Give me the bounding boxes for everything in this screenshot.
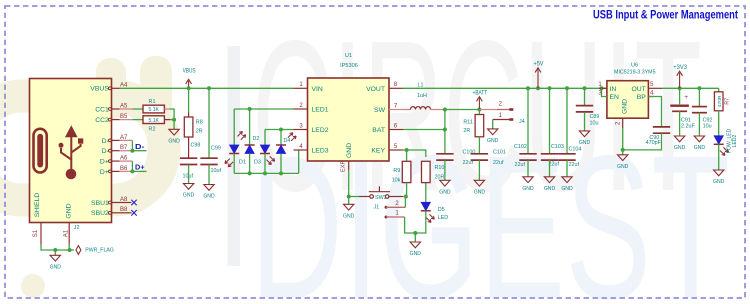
U6 pin 4 BP [648,96,654,98]
svg-text:GND: GND [487,138,499,144]
svg-text:5.1K: 5.1K [148,118,159,124]
power symbol +3V3 [679,73,681,89]
wire SBU2 stub [120,212,132,214]
wire C101 gnd [478,160,480,180]
svg-text:D3: D3 [254,160,261,166]
wire J1 pin1 to gnd rail [405,217,416,233]
led D2 [245,144,255,146]
junction shield/gnd [53,248,57,252]
svg-text:R7: R7 [724,98,730,105]
svg-text:22uf: 22uf [515,162,526,168]
USB pin S1 SHIELD stub [40,223,42,245]
wire R7 to LED2 [718,111,720,136]
wire LED2 gnd [718,145,720,171]
wire C98 to gnd [188,165,190,184]
svg-text:KEY: KEY [371,148,385,155]
wire J1 pin2 up [404,197,406,208]
ground C99 [204,185,214,191]
U6 pin 2 GND [622,118,624,128]
capacitor C104 22uf [558,153,575,155]
wire C102 [527,88,529,153]
svg-text:SBU1: SBU1 [91,200,109,207]
wire +3V3 rail [662,87,719,89]
svg-text:GND: GND [343,214,355,220]
svg-text:+3V3: +3V3 [673,65,687,71]
svg-text:L1: L1 [418,82,424,88]
U1 pin 4 LED3 [294,149,308,151]
wire C89 gnd [584,112,586,131]
junction LED2 rail [279,128,283,132]
junction VBUS at R8 [187,86,191,90]
svg-text:D5: D5 [438,207,445,213]
svg-text:VBUS: VBUS [183,68,196,74]
ground U6 [622,150,624,155]
power symbol +5V [537,69,539,88]
wire D2 top [249,109,251,145]
svg-text:GND: GND [346,143,353,158]
junction +5V [536,86,540,90]
wire R8 to C98 [188,137,190,158]
USB receptacle icon [34,129,47,173]
switch SW3 [389,196,404,198]
svg-text:CC1: CC1 [95,106,109,113]
svg-text:GND: GND [544,186,556,192]
svg-text:D+: D+ [100,159,109,166]
svg-text:10k: 10k [392,177,401,183]
resistor R11 2R [475,115,484,137]
led D5 [421,202,430,210]
wire C100 gnd [444,160,446,180]
junction KEY R9 [405,148,409,152]
capacitor C98 10uf [180,157,197,159]
wire C103 gnd [549,160,551,177]
resistor R8 2R [188,113,190,118]
wire batt rail [445,109,480,111]
wire VBUS rail [120,87,294,89]
svg-text:GND: GND [522,186,534,192]
svg-text:GND: GND [561,186,573,192]
svg-text:2R: 2R [463,128,470,134]
wire VBUS to R8 [188,88,190,112]
wire to R7 [718,88,720,92]
U6 pin 5 OUT [648,87,662,89]
ground sw3 [348,197,350,205]
junction EXP SW3 gnd [347,195,351,199]
U6 pin 1 IN [599,87,607,89]
ground C101 [474,180,484,186]
junction bottom rail D2 [248,171,252,175]
svg-text:2.2uF: 2.2uF [681,123,695,129]
wire U6 gnd [622,128,624,150]
capacitor C92 10u [692,106,707,108]
wire C91 gnd [679,111,681,136]
svg-text:LED3: LED3 [312,148,329,155]
ground C103 [544,177,554,183]
svg-text:D-: D- [102,148,109,155]
svg-text:D+: D+ [135,163,145,172]
svg-text:D4: D4 [284,138,291,144]
wire A1 gnd down [68,245,70,251]
wire SW to L1 [403,109,411,111]
resistor R7 470R [714,92,723,111]
capacitor C103 22uf [541,153,558,155]
svg-text:GND: GND [579,140,591,146]
svg-text:R9: R9 [393,168,400,174]
svg-text:GND: GND [674,145,686,151]
wire D1 top [233,109,235,145]
ic U1 IPS306 body [308,78,390,161]
svg-text:U6: U6 [631,62,638,68]
svg-text:GND: GND [168,139,180,145]
junction D+ [130,169,134,173]
resistor R2 5.1K [143,116,164,124]
junction gnd rail [413,231,417,235]
svg-text:470R: 470R [717,95,723,107]
svg-text:C102: C102 [514,144,527,150]
wire D- B7 [120,150,133,152]
wire J4 pin1 gnd [492,120,494,129]
svg-text:LED2: LED2 [312,127,329,134]
inductor L1 coil [411,107,431,110]
wire VBUS to C99 [208,88,210,157]
wire EXP down [348,170,350,197]
svg-text:IN: IN [610,86,617,93]
svg-text:SW3: SW3 [375,195,387,201]
junction bottom rail D4 [279,171,283,175]
wire D- tie [131,140,133,150]
wire D5 to gnd rail [415,211,426,233]
wire CC1 pink [120,108,133,110]
wire D+ B6 [120,170,133,172]
svg-text:D-: D- [135,142,145,151]
wire D4 top [280,130,282,146]
junction C92 [697,86,701,90]
svg-text:USB Input & Power Management: USB Input & Power Management [593,9,738,21]
svg-text:LED: LED [438,215,449,221]
junction D- [130,149,134,153]
svg-text:R2: R2 [149,127,156,133]
junction R9 SW3 J1 [404,195,408,199]
svg-text:10u: 10u [703,123,712,129]
ground C102 [523,177,533,183]
wire SW3 left [359,196,370,198]
svg-text:D+: D+ [100,169,109,176]
svg-text:D-: D- [102,138,109,145]
junction C104 [565,86,569,90]
svg-text:C104: C104 [569,146,582,152]
wire batt vertical [444,110,446,154]
junction VBUS at C99 [207,86,211,90]
junction C102 [526,86,530,90]
svg-text:C98: C98 [191,143,201,149]
USB pin A1 GND stub [68,223,70,245]
capacitor C100 22uf [436,153,453,155]
watermark text CIRCUIT [228,46,241,266]
junction C89 [583,86,587,90]
ground usb [54,250,56,255]
wire L1 to BATT node [431,109,445,111]
svg-text:IP5306: IP5306 [340,63,358,69]
capacitor C101 22uf [471,153,488,155]
wire C102 gnd [527,160,529,177]
svg-text:MIC5219-3.3YM5: MIC5219-3.3YM5 [614,70,656,76]
wire C89 [584,88,586,105]
svg-text:GND: GND [410,251,422,257]
wire +BATT to R11 [478,110,480,115]
wire KEY to R9 [406,150,408,161]
svg-text:U1: U1 [345,53,352,59]
wire LED bottom rail [233,154,235,174]
svg-text:C103: C103 [551,144,564,150]
ground C98 [183,184,193,190]
U1 pin 7 SW [389,109,403,111]
svg-text:BP: BP [637,94,647,101]
wire D3 top [264,130,266,146]
svg-text:GND: GND [474,190,486,196]
wire R10 to D5 [425,183,427,203]
wire SBU1 stub [120,202,132,204]
svg-text:GND: GND [66,203,73,218]
led D1 [230,145,239,153]
wire shield to gnd [41,245,55,251]
power symbol +BATT [478,98,480,109]
capacitor C90 470pf [653,126,670,128]
svg-text:10uf: 10uf [211,168,222,174]
wire R2 right [164,119,170,121]
wire C92 [698,88,700,106]
wire C99 to gnd [208,165,210,185]
ground LED2 [714,170,724,176]
svg-text:GND: GND [50,265,62,271]
junction bottom rail D3 [263,171,267,175]
svg-text:VBUS: VBUS [90,86,109,93]
U1 pin 3 LED2 [294,129,308,131]
wire D- A7 [120,139,133,141]
svg-text:10u: 10u [590,120,599,126]
wire CC2 pink [120,119,133,121]
junction BAT [443,128,447,132]
USB trident icon [59,126,84,179]
ground C100 [440,180,450,186]
svg-text:SW: SW [374,107,386,114]
U6 pin 3 EN [602,88,607,96]
junction C91 [678,86,682,90]
svg-text:GND: GND [713,179,725,185]
svg-text:R11: R11 [463,119,473,125]
svg-text:R10: R10 [435,165,445,171]
wire R1 right [164,108,170,110]
svg-text:C89: C89 [590,114,600,120]
svg-text:+5V: +5V [534,62,544,68]
svg-text:D2: D2 [253,136,260,142]
junction EN [600,86,604,90]
U1 pin 2 LED1 [294,108,308,110]
capacitor C89 10u [576,105,593,107]
svg-text:CC2: CC2 [95,117,109,124]
svg-text:OUT: OUT [631,86,645,93]
U1 pin 1 VIN [294,87,308,89]
connector J1 pin 2 [385,206,388,209]
svg-text:PWR_FLAG: PWR_FLAG [85,248,114,254]
svg-text:22uf: 22uf [569,162,580,168]
ground key block [414,233,416,242]
USB-C connector J2 body [30,79,112,223]
svg-text:J1: J1 [374,205,380,211]
power flag PWR_FLAG [76,246,81,255]
led LED2 POW_LED [714,136,723,144]
svg-text:A1: A1 [63,229,69,237]
resistor R1 5.1K [143,105,164,113]
wire LED2 rail [265,129,294,131]
wire C90 to gnd junction [623,133,662,150]
svg-text:S1: S1 [33,229,39,237]
wire C103 [549,88,551,153]
ic U6 MIC5219-3.3YM5 body [607,81,649,119]
ground C104 [562,177,572,183]
no-connect SBU1 [131,200,136,206]
junction LED1 rail [248,107,252,111]
junction R1/R2 gnd [172,118,176,122]
svg-text:20R: 20R [435,175,445,181]
wire LED1 rail [234,108,293,110]
svg-text:R8: R8 [196,120,203,126]
svg-text:GND: GND [617,164,629,170]
ground C89 [579,131,589,137]
svg-text:C101: C101 [493,149,506,155]
svg-text:LED2: LED2 [732,135,738,148]
svg-text:EN: EN [610,94,620,101]
resistor R10 20R [422,161,431,182]
ground C91 [674,136,684,142]
svg-text:22uf: 22uf [493,160,504,166]
no-connect SBU2 [131,210,136,216]
svg-text:C99: C99 [211,146,221,152]
watermark circuitdigest logo blob [0,56,172,298]
connector J1 pin 1 [385,216,388,219]
svg-text:1uH: 1uH [417,93,427,99]
svg-text:GND: GND [183,193,195,199]
svg-text:5.1K: 5.1K [148,107,159,113]
svg-text:2R: 2R [196,129,203,135]
svg-text:GND: GND [439,190,451,196]
ground R1R2 [173,122,175,130]
wire bottom rail to LED3 pin [298,150,300,173]
svg-text:470pF: 470pF [646,140,662,146]
svg-text:GND: GND [622,99,629,114]
capacitor C102 22uf [519,153,536,155]
svg-text:+BATT: +BATT [473,91,488,97]
wire R11 to C101 [478,137,480,153]
wire D+ A6 [120,160,133,162]
led D4 [276,144,286,146]
U1 pin 5 KEY [389,149,403,151]
ground C92 [694,136,704,142]
wire C92 gnd [698,113,700,136]
U1 pin 6 BAT [389,129,403,131]
svg-text:LED1: LED1 [312,107,329,114]
junction L1 out [443,108,447,112]
wire VOUT rail [403,87,607,89]
led D3 [260,145,269,153]
ground J4 [488,129,498,135]
capacitor C99 10uf [200,157,217,159]
resistor R9 10k [402,161,411,182]
svg-text:GND: GND [203,194,215,200]
U1 pin EXP GND bottom [348,161,350,170]
wire KEY net [403,150,426,157]
wire to J4 pin 2 [479,109,497,111]
svg-text:GND: GND [694,145,706,151]
connector J4 pin 1 [493,119,510,121]
junction C103 [548,86,552,90]
svg-text:VOUT: VOUT [366,86,385,93]
svg-text:R1: R1 [149,99,156,105]
junction +BATT [477,108,481,112]
wire C104 gnd [566,160,568,177]
svg-text:SHIELD: SHIELD [34,193,41,218]
svg-text:+: + [684,94,688,101]
svg-text:BAT: BAT [372,127,385,134]
svg-text:VIN: VIN [312,86,323,93]
svg-text:SBU2: SBU2 [91,210,109,217]
U1 pin 8 VOUT [389,87,403,89]
wire C91 [679,88,681,104]
svg-text:EXP: EXP [341,161,347,172]
power symbol VBUS [188,81,190,89]
junction U6 gnd C90 [621,148,625,152]
wire D+ tie [131,161,133,171]
svg-text:D1: D1 [239,160,246,166]
wire C104 [566,88,568,153]
junction A1 pwr_flag [68,248,72,252]
svg-text:J4: J4 [519,119,525,125]
wire BP to C90 [648,97,661,127]
svg-text:J2: J2 [74,225,80,231]
wire BAT pin [403,129,445,131]
wire R9 bottom [406,183,408,197]
